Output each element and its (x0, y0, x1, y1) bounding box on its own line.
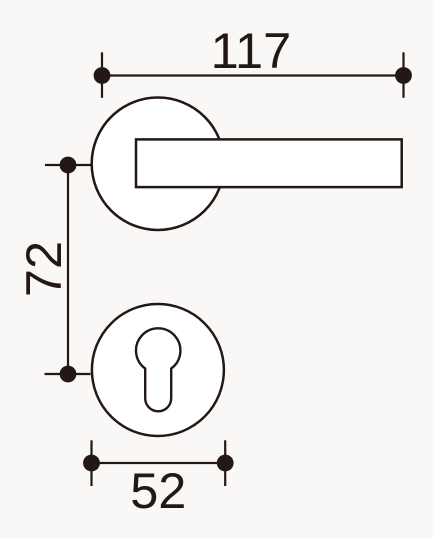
escutcheon circle (lower, keyhole rose) (92, 304, 224, 436)
dimension line 52 (horizontal, bottom) (92, 462, 226, 464)
dot left of 117 (94, 67, 111, 84)
tick left of 52 (90, 440, 92, 486)
lever handle bar (136, 139, 402, 187)
svg-text:117: 117 (211, 22, 292, 79)
dot right of 52 (217, 455, 234, 472)
tick bottom of 72 (45, 373, 91, 375)
dot bottom of 72 (60, 366, 77, 383)
dot top of 72 (60, 157, 77, 174)
svg-text:72: 72 (15, 241, 72, 297)
dimension line 72 (vertical, left) (67, 165, 69, 374)
rose circle (upper, handle rose) (92, 98, 224, 230)
tick right of 117 (402, 52, 404, 98)
euro profile keyhole (136, 328, 180, 411)
tick top of 72 (45, 164, 91, 166)
dot left of 52 (83, 455, 100, 472)
svg-text:52: 52 (130, 462, 186, 519)
tick right of 52 (224, 440, 226, 486)
dimension line 117 (horizontal, top) (102, 74, 404, 76)
tick left of 117 (101, 52, 103, 98)
dot right of 117 (395, 67, 412, 84)
